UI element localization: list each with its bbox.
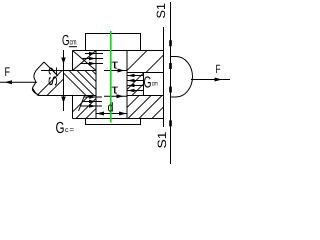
svg-text:=: = <box>70 125 75 134</box>
svg-text:F: F <box>216 62 221 76</box>
svg-text:G: G <box>62 33 70 49</box>
svg-text:F: F <box>5 65 11 79</box>
svg-text:G: G <box>56 120 65 137</box>
svg-text:c: c <box>65 127 69 134</box>
svg-text:S1: S1 <box>155 131 169 148</box>
svg-text:S2: S2 <box>46 66 60 86</box>
svg-text:G: G <box>144 75 152 92</box>
svg-text:τ: τ <box>112 82 120 97</box>
svg-text:τ: τ <box>112 57 120 72</box>
svg-text:cm: cm <box>70 38 77 47</box>
svg-text:d: d <box>108 100 114 115</box>
svg-text:cm: cm <box>152 81 158 88</box>
svg-text:S1: S1 <box>154 3 168 19</box>
